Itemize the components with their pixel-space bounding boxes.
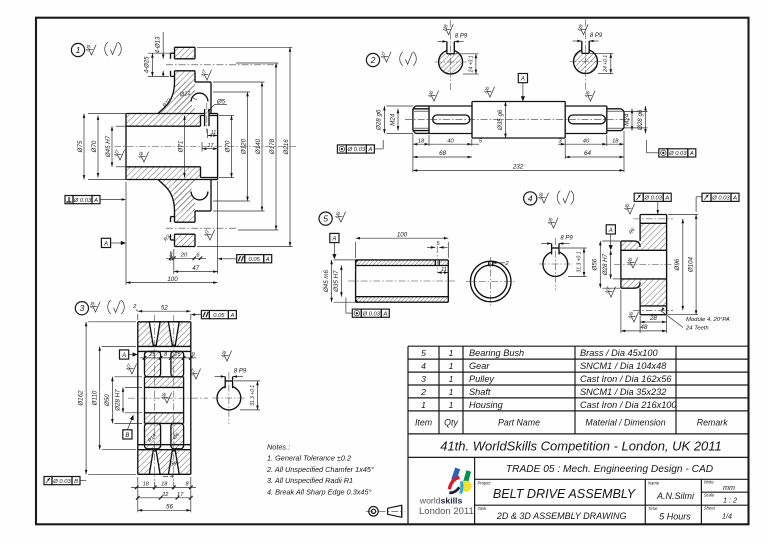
surface note on gear keyway [547,217,558,228]
svg-text:5: 5 [421,348,426,358]
dimension Ø50 [104,377,142,424]
svg-text:4-Ø13: 4-Ø13 [156,36,162,53]
dimension 22-17 pulley [136,492,193,500]
svg-text:11: 11 [441,267,447,273]
dimension 11 bush [437,266,448,275]
dimension 31.3 gear circle [560,248,587,276]
dimension 68 [413,150,472,158]
bush wall hatching [356,260,449,266]
surface symbol N8 pulley bore [160,392,171,403]
shaft dims row1 [413,138,624,145]
project cell [478,480,637,501]
svg-text:31.3 +0.1: 31.3 +0.1 [250,385,256,406]
surface note N8 view4 [537,192,548,203]
svg-text:18: 18 [143,482,150,488]
pulley v-groove bottom 2 [168,451,179,475]
pulley v-groove bottom 1 [149,451,160,475]
svg-text:4: 4 [528,193,533,203]
svg-text:A.N.Silmi: A.N.Silmi [656,491,695,501]
dimension Ø104 [668,215,698,315]
svg-text:0.05: 0.05 [213,313,225,319]
svg-text:3. All Unspecified Radii R1: 3. All Unspecified Radii R1 [267,476,353,485]
svg-text:Qty: Qty [444,418,458,428]
pulley v-groove top 1 [149,322,160,346]
svg-text:9: 9 [192,352,195,358]
housing oil hole Ø5 [205,103,209,133]
svg-text:Task: Task [478,506,488,511]
svg-text:Bearing Bush: Bearing Bush [469,348,524,358]
pulley v-groove top 2 [168,322,179,346]
svg-text:Gear: Gear [469,361,490,371]
parts row item 2 [420,387,666,397]
dimension 4-Ø13 [156,32,165,77]
svg-text:Ø35 g6: Ø35 g6 [497,109,504,131]
balloon 2 shaft [366,53,379,66]
dimension Ø70 right [219,116,234,178]
svg-text:28: 28 [649,315,657,322]
housing bolt hole top (Ø13) white band [170,59,197,71]
svg-text:Ø110: Ø110 [91,390,98,406]
svg-text:8 P9: 8 P9 [590,33,603,39]
surface symbol N8 in bore view1 [137,151,148,162]
svg-text:3: 3 [80,303,85,313]
dimension Ø140 [213,82,265,211]
parts row item 4 [421,361,667,371]
leader concentricity right [647,140,659,153]
dimension 24 right circle [590,53,613,73]
dimension 11 counterbore [208,129,218,138]
dimension 47 [174,181,218,274]
svg-text:1 : 2: 1 : 2 [723,496,737,505]
svg-text:Ø35 H7: Ø35 H7 [333,270,340,293]
dimension Ø45 H7 [105,126,128,167]
svg-text:Ø216: Ø216 [283,139,290,156]
svg-text:52: 52 [161,304,168,311]
leader for parallel frame view1 [218,258,237,261]
surface note N6 view5 [334,211,345,222]
datum A on shaft [518,74,527,102]
svg-text:48: 48 [641,324,648,331]
parts row item 3 [421,374,672,384]
svg-text:41th. WorldSkills Competition: 41th. WorldSkills Competition - London, … [440,439,722,454]
parts row item 1 [421,400,677,410]
housing bolt circle centerline top [166,64,279,66]
surface symbol N7 pulley left [125,363,136,374]
svg-text:2: 2 [420,387,426,397]
svg-text:Ø 0.03: Ø 0.03 [711,196,730,202]
housing section hatching [126,47,201,246]
dimension Ø162 [78,322,136,475]
surface symbol N7 pulley right [189,368,200,379]
datum A view4 [606,225,615,251]
svg-text:56: 56 [166,504,173,511]
dimension 17 counterbore [202,142,218,152]
dimension Ø56 [592,241,620,288]
dimension M24 left [390,109,400,131]
housing fillet pocket Ø22 top [191,93,208,110]
svg-text:A: A [608,228,613,234]
svg-text:232: 232 [512,164,524,171]
svg-text:18: 18 [161,482,168,488]
dimension chain 3-20-6 [166,251,206,261]
label Ø22 pocket [179,90,197,100]
parts list table grid [408,346,749,434]
svg-text:2: 2 [370,55,376,65]
leader runout pulley [80,480,86,482]
dimension M24 right [623,109,633,131]
tolerance frame concentricity bush [352,309,389,317]
svg-text:64: 64 [584,150,591,157]
svg-text:B: B [74,479,78,485]
svg-text:Pulley: Pulley [469,374,495,384]
housing hub outline [126,114,218,180]
svg-text:22: 22 [161,492,169,498]
svg-text:Shaft: Shaft [469,387,491,397]
svg-text:Cast Iron / Dia 162x56: Cast Iron / Dia 162x56 [580,374,672,384]
dimension Ø35 H7 bush [333,266,343,297]
gear axis centerline [614,264,672,266]
gear section outline [621,215,667,315]
svg-text:SNCM1 / Dia 104x48: SNCM1 / Dia 104x48 [580,361,667,371]
sheet cell [704,505,732,520]
surface symbol N7 left of hub view1 [113,149,124,160]
svg-text:Ø 0.03: Ø 0.03 [362,311,381,317]
svg-text:24 +0.1: 24 +0.1 [468,55,474,73]
svg-text:Ø28 g6: Ø28 g6 [376,109,383,131]
housing bolt hole bottom white band [170,222,197,234]
surface note N9 view1 [85,44,96,55]
svg-text:BELT DRIVE ASSEMBLY: BELT DRIVE ASSEMBLY [493,487,637,501]
svg-text:Cast Iron / Dia 216x100: Cast Iron / Dia 216x100 [580,400,677,410]
dimension 52 [138,304,191,320]
pulley rim hatching bottom [138,450,191,475]
pulley groove centerline 1 [154,315,156,481]
svg-text:20: 20 [180,252,188,258]
svg-text:Ø50: Ø50 [104,394,111,407]
svg-text:Ø140: Ø140 [255,138,262,155]
svg-text:100: 100 [397,231,408,238]
svg-text:24 +0.1: 24 +0.1 [603,55,609,73]
svg-text:London 2011: London 2011 [419,506,474,517]
svg-text:24 Teeth: 24 Teeth [685,326,709,332]
svg-text:8 P9: 8 P9 [560,236,573,242]
svg-text:1/4: 1/4 [722,511,732,520]
title block grid [408,457,749,524]
leader concentricity bush [346,298,352,314]
shaft keyway section circle right [570,20,603,90]
shaft centerline [405,119,632,121]
worldskills logo mark [449,468,471,494]
dimension 100 overall [126,182,218,285]
shaft keyway slot right [568,115,605,124]
svg-text:Scale: Scale [704,492,715,497]
datum A view1 [101,238,126,247]
svg-text:Ø28 H7: Ø28 H7 [602,253,609,276]
scale cell [704,492,737,504]
dimension Ø70 left [91,116,99,178]
svg-text:Ø75: Ø75 [77,140,84,153]
pulley hub hatching [145,377,184,388]
dimension Ø120 [213,92,250,201]
svg-text:A: A [367,147,372,153]
svg-text:4: 4 [170,474,173,480]
balloon 5 bush [319,212,332,225]
tolerance frame runout gear right [702,193,739,201]
dimension 5 oil hole [427,241,448,249]
housing flange plate outline [158,47,211,246]
surface symbol N6 shaft left [427,90,438,101]
tolerance frame parallel 0.05 view3 [201,311,236,319]
svg-text:38°: 38° [170,462,179,468]
svg-text:Ø 0.03: Ø 0.03 [52,479,71,485]
dimension 4 groove [163,474,173,480]
dimension 25-8-25-9 web [140,352,196,360]
svg-text:Sheet: Sheet [704,505,716,510]
gear tooth leader note [661,307,730,331]
svg-text:Item: Item [415,418,432,428]
parts row item 5 [421,348,658,358]
surface symbol N6 gear top [623,203,634,214]
task cell [478,506,627,521]
time cell [648,506,691,521]
surface symbol N7 gear hub left [604,286,615,297]
dimension 28 gear [640,315,667,333]
svg-text:8 P9: 8 P9 [455,34,468,40]
housing fillet pocket bottom [191,183,208,200]
dimension 31.3 pulley circle [234,381,260,410]
third angle projection symbol [366,505,405,517]
svg-text:A: A [382,311,387,317]
housing bolt circle centerline bottom [166,227,236,229]
svg-text:Ø162: Ø162 [78,390,85,407]
shaft outline [413,102,624,139]
dimension 232 [413,131,624,172]
svg-text:Ø 0.03: Ø 0.03 [73,198,92,204]
svg-text:1: 1 [449,374,454,384]
svg-text:Ø96: Ø96 [674,258,681,271]
leader runout left [657,201,660,214]
dimension Ø110 [91,346,136,449]
svg-text:B: B [125,433,129,439]
svg-text:Ø104: Ø104 [687,256,694,273]
dimension 24 left circle [455,54,479,74]
dimension Ø75 [77,114,128,180]
pulley centerline axis [128,397,208,399]
svg-text:TRADE 05 : Mech. Engineering D: TRADE 05 : Mech. Engineering Design - CA… [506,464,714,475]
parenthesis check view4 [557,191,574,205]
dimension Ø28 H7 gear [602,250,620,279]
tolerance frame runout gear left [634,193,671,201]
gear section hatching [621,223,667,306]
dimension 48 gear [621,290,667,333]
dimension Ø216 [197,47,293,246]
svg-text:18: 18 [612,138,619,144]
svg-text:4-Ø25: 4-Ø25 [145,56,151,73]
leader for perpendicularity frame [100,198,126,201]
surface note pulley keyway [220,350,231,361]
svg-text:Brass / Dia 45x100: Brass / Dia 45x100 [580,348,659,358]
svg-text:1: 1 [421,400,426,410]
svg-text:3: 3 [421,374,426,384]
svg-text:Notes :: Notes : [267,442,290,451]
svg-text:25: 25 [148,352,156,358]
balloon 3 pulley [75,302,88,315]
svg-text:Ø 0.03: Ø 0.03 [668,151,687,157]
tolerance frame concentricity left shaft [337,145,374,153]
dimension Ø28 g6 right [624,106,648,134]
surface symbol N6 shaft middle [483,86,494,97]
svg-text:Remark: Remark [697,418,728,428]
dimension 38 degree groove [170,462,179,468]
svg-text:5 Hours: 5 Hours [659,512,691,522]
svg-text:Project: Project [478,480,492,485]
svg-text:8 P9: 8 P9 [234,369,247,375]
shaft keyway slot left [433,115,470,124]
housing centerline axis [114,146,296,148]
svg-text:A: A [121,353,126,359]
svg-text:47: 47 [192,265,199,272]
leader parallel view3 [191,313,202,316]
dimension Ø28 g6 left [376,106,413,134]
bush oil hole [435,246,439,272]
tolerance frame concentricity right shaft [659,149,696,157]
leader concentricity left [374,140,383,149]
svg-text:A: A [520,77,525,83]
write cell [704,480,735,493]
svg-text:Ø45 H7: Ø45 H7 [105,135,112,158]
competition banner cell [408,434,722,524]
svg-text:Ø120: Ø120 [241,138,248,155]
datum B view3 [123,415,134,439]
surface symbol N7 boss top [200,69,211,80]
svg-text:18: 18 [418,138,425,144]
surface symbol N6 gear bore [626,257,637,268]
svg-text:Time: Time [648,506,658,511]
bush end view oil hole [489,261,510,267]
dimension 64 [565,150,624,158]
svg-text:2. All Unspecified Chamfer 1x4: 2. All Unspecified Chamfer 1x45° [266,465,374,474]
svg-text:5: 5 [323,214,328,224]
svg-text:100: 100 [167,276,178,283]
name cell [648,480,695,501]
svg-text:1: 1 [76,45,81,55]
svg-text:40: 40 [583,138,590,144]
svg-text:A: A [689,151,694,157]
dimension Ø45 m6 [323,260,356,302]
svg-text:1. General Tolerance ±0.2: 1. General Tolerance ±0.2 [267,454,351,463]
surface note N7 view2 [380,51,391,62]
svg-text:Write: Write [704,480,714,485]
svg-text:Ø70: Ø70 [225,140,232,153]
svg-text:Ø70: Ø70 [91,140,98,153]
balloon 4 gear [524,192,537,205]
tolerance frame perpendicularity view1 [65,196,100,204]
bush end view circles [466,257,516,306]
svg-text:Ø71: Ø71 [178,141,185,154]
svg-text:2D & 3D ASSEMBLY DRAWING: 2D & 3D ASSEMBLY DRAWING [496,511,627,521]
label Ø5 with leader [208,99,228,113]
svg-text:A: A [732,196,737,202]
parenthesis check view2 [400,52,417,66]
svg-text:11: 11 [211,130,216,136]
svg-text:68: 68 [439,150,446,157]
surface symbol N7 bottom flange [203,229,214,240]
svg-text:Module 4, 20°PA: Module 4, 20°PA [686,317,730,323]
svg-text:Ø 0.03: Ø 0.03 [347,147,366,153]
surface symbol N6 shaft right [584,90,595,101]
pulley keyway circle [213,369,247,425]
dimension Ø28 H7 pulley [115,387,142,412]
svg-text:1: 1 [449,348,454,358]
svg-text:A: A [331,237,336,243]
shaft thread lines M24 [414,111,623,128]
balloon 1 housing [71,43,84,56]
dimension Ø178 [236,63,279,230]
dimension 4-Ø25 [145,53,171,76]
svg-text:M24: M24 [623,113,630,126]
svg-text:1: 1 [449,387,454,397]
svg-text:Part Name: Part Name [498,418,540,428]
svg-text:Name: Name [648,480,660,485]
svg-text:4. Break All Sharp Edge 0.3x45: 4. Break All Sharp Edge 0.3x45° [267,488,372,497]
gear pitch centerlines [633,218,673,220]
svg-text:Ø45 m6: Ø45 m6 [323,269,330,293]
dimension Ø71 bore [178,116,186,178]
datum A view5 [330,233,339,259]
svg-text:Material / Dimension: Material / Dimension [585,418,665,428]
svg-text:0.05: 0.05 [249,257,261,263]
svg-text:mm: mm [723,483,735,492]
svg-text:31.3 +0.1: 31.3 +0.1 [577,251,583,272]
dimension Ø96 [674,219,684,310]
leader runout right [696,197,702,212]
pulley web upper blocks [145,351,184,376]
svg-text:M24: M24 [390,113,397,126]
notes text block [266,442,374,496]
svg-text:Housing: Housing [469,400,504,410]
bush tube outline [356,260,449,302]
dimension chain 18-18-8 pulley [131,482,196,490]
svg-text:1: 1 [449,361,454,371]
svg-text:Ø 0.03: Ø 0.03 [643,196,662,202]
dimension 100 bush [356,231,449,258]
pulley groove centerline 2 [173,315,175,481]
parts table header row [415,418,728,428]
parenthesis check view3 [108,300,125,314]
svg-text:1: 1 [449,400,454,410]
parenthesis check view1 [105,42,122,56]
svg-text:A: A [265,257,270,263]
pulley hub outline [145,377,184,424]
surface note N9 view3 [89,301,100,312]
dimension 56 pulley [138,477,191,512]
svg-text:17: 17 [177,492,184,498]
pulley rim hatching top [138,322,191,347]
tolerance frame parallel 0.05 view1 [237,255,272,263]
bush centerline [348,280,455,282]
svg-text:Ø178: Ø178 [269,138,276,155]
svg-text:A: A [103,241,108,247]
dimension Ø35 middle [497,102,507,139]
svg-text:Ø28 H7: Ø28 H7 [115,389,122,412]
svg-text:A: A [229,313,234,319]
pulley rim outline [138,322,191,475]
gear keyway circle [539,236,573,291]
dimension 2 pulley top [132,304,138,311]
svg-text:SNCM1 / Dia 35x232: SNCM1 / Dia 35x232 [580,387,666,397]
worldskills logo wordmark [419,495,474,517]
svg-text:25: 25 [173,352,181,358]
